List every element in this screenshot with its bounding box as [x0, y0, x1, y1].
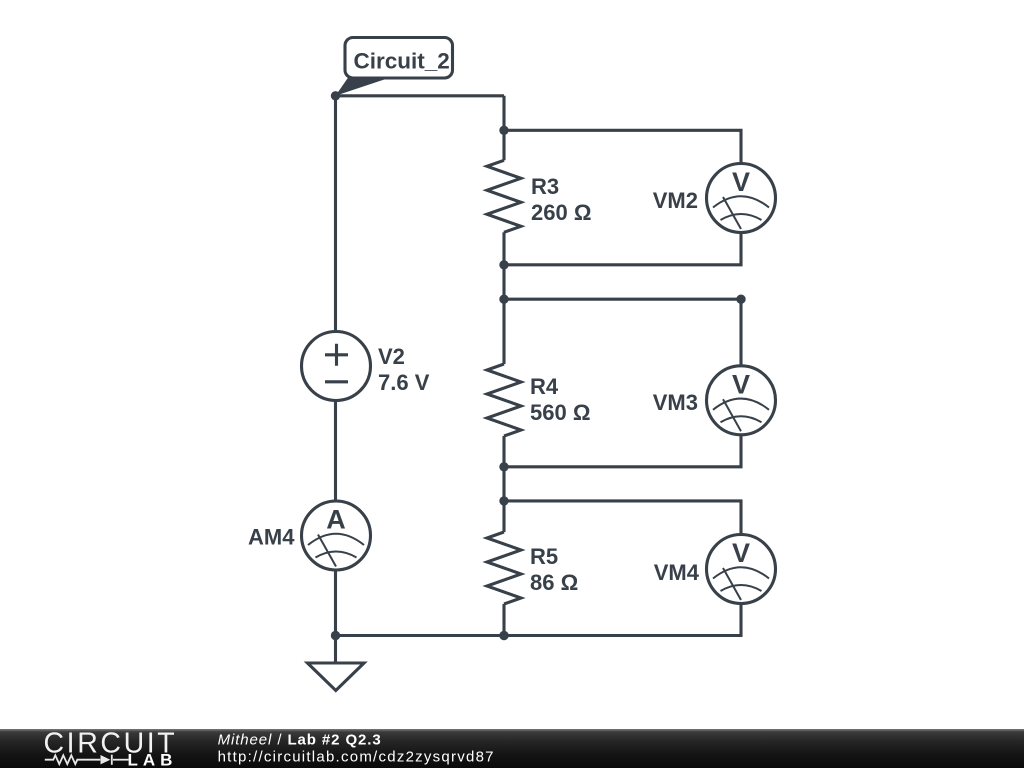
wire bottom rail with VM4 lead [336, 604, 742, 636]
svg-text:AM4: AM4 [248, 525, 295, 550]
wire top lead of R3 [502, 96, 505, 161]
wire VM2 top rail [504, 130, 741, 163]
ground [308, 663, 365, 691]
svg-text:LAB: LAB [128, 751, 178, 768]
svg-text:V: V [732, 369, 750, 399]
svg-text:V: V [732, 167, 750, 197]
svg-text:Circuit_2: Circuit_2 [354, 49, 450, 74]
node ground junction [331, 631, 340, 640]
voltmeter VM4 [707, 535, 776, 604]
svg-text:http://circuitlab.com/cdz2zysq: http://circuitlab.com/cdz2zysqrvd87 [218, 748, 495, 765]
svg-text:560 Ω: 560 Ω [530, 400, 590, 425]
wire VM2 bottom rail [504, 233, 741, 265]
svg-text:86 Ω: 86 Ω [530, 570, 578, 595]
svg-text:V: V [732, 538, 750, 568]
resistor R5 [487, 532, 521, 604]
svg-text:7.6 V: 7.6 V [378, 370, 430, 395]
svg-text:A: A [326, 505, 346, 535]
svg-text:VM2: VM2 [653, 188, 698, 213]
wire R4 to R5 [502, 436, 505, 532]
wire top horizontal node to corner [336, 94, 505, 97]
resistor R4 [487, 364, 521, 436]
wire R5 to bottom rail [502, 604, 505, 636]
node R4 bottom [499, 462, 508, 471]
label R4 560 Ohm [530, 374, 590, 425]
svg-text:260 Ω: 260 Ω [531, 200, 591, 225]
node VM3 top [736, 295, 745, 304]
wire VM3 bottom rail [504, 435, 741, 467]
label V2 7.6 V [378, 344, 430, 395]
logo resistor-diode doodle [45, 755, 129, 765]
resistor R3 [487, 160, 521, 232]
node R4 top [499, 295, 508, 304]
node R5 bottom [499, 631, 508, 640]
node top-left [331, 91, 340, 100]
ammeter AM4 [302, 501, 371, 570]
wire VM3 top rail [504, 299, 741, 366]
wire VM4 top rail [504, 501, 741, 535]
wire left vertical node to V2 [334, 96, 337, 332]
svg-text:R3: R3 [531, 174, 559, 199]
voltmeter VM2 [707, 164, 776, 233]
voltmeter VM3 [707, 366, 776, 435]
voltage source V2 [302, 332, 371, 401]
node R3 bottom [499, 260, 508, 269]
svg-text:Mitheel / Lab #2 Q2.3: Mitheel / Lab #2 Q2.3 [218, 732, 382, 749]
svg-text:VM3: VM3 [653, 390, 698, 415]
wire R3 to R4 [502, 232, 505, 364]
label R5 86 Ohm [530, 544, 578, 595]
wire AM4 to bottom rail [334, 570, 337, 636]
svg-text:V2: V2 [378, 344, 405, 369]
svg-text:R4: R4 [530, 374, 559, 399]
node R5 top [499, 496, 508, 505]
wire ground stub [334, 636, 337, 664]
label R3 260 Ohm [531, 174, 591, 225]
wire V2 to AM4 [334, 400, 337, 501]
svg-text:VM4: VM4 [654, 560, 700, 585]
svg-text:R5: R5 [530, 544, 558, 569]
flag Circuit_2 [336, 38, 453, 96]
node R3 top [499, 126, 508, 135]
